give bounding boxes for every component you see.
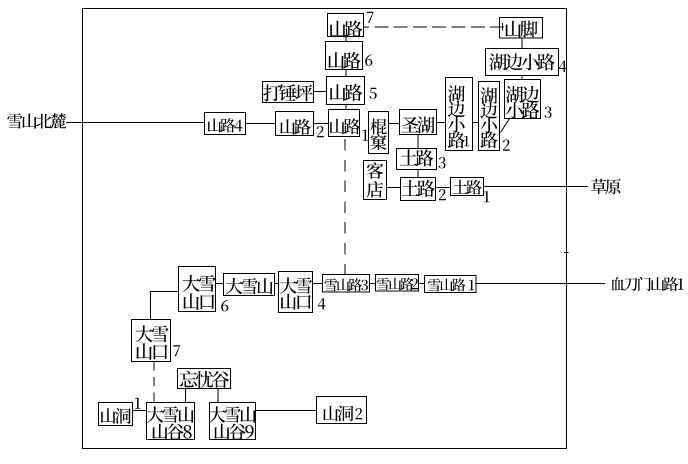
node 棍窠 box bbox=[369, 112, 389, 154]
label 血刀门山路1 bbox=[611, 277, 684, 291]
node 土路1 box bbox=[451, 178, 490, 203]
wire 湖边小路1-湖边小路2 bbox=[473, 122, 479, 124]
wire 忘忧谷-大雪山山谷8 bbox=[185, 389, 187, 403]
wire 棍窠-圣湖 bbox=[389, 123, 400, 125]
wire 山路1-雪山路3 dashed bbox=[344, 139, 346, 274]
wire 土路3-土路2 bbox=[417, 170, 419, 178]
node 土路3 box bbox=[397, 149, 446, 170]
junction tick at 山脚 west bbox=[502, 23, 504, 31]
wire 打锤坪-山路5 bbox=[314, 91, 327, 93]
wire 山路5-山路1 bbox=[345, 105, 347, 110]
node 土路2 box bbox=[401, 178, 446, 201]
node 雪山路2 box bbox=[376, 275, 419, 292]
wire 客店-土路2 bbox=[387, 187, 401, 189]
outer border frame bbox=[83, 9, 567, 449]
node 山路7 box bbox=[328, 12, 374, 38]
node 雪山路1 box bbox=[425, 276, 477, 293]
node 湖边小路4 box bbox=[486, 49, 567, 76]
node 山路1 box bbox=[329, 110, 368, 141]
wire 忘忧谷-大雪山山谷9 bbox=[217, 389, 219, 403]
wire 雪山北麓-山路4 bbox=[66, 122, 204, 124]
node 大雪山口6 box bbox=[179, 267, 229, 312]
wire 山洞1-大雪山山谷8 bbox=[133, 410, 147, 412]
wire 山路4-山路2 bbox=[246, 123, 276, 125]
wire 大雪山口7-大雪山山谷8 dashed bbox=[153, 362, 155, 403]
node 湖边小路2 box bbox=[479, 82, 510, 151]
node 圣湖 box bbox=[400, 110, 437, 135]
wire 雪山路1-血刀门山路1 bbox=[477, 283, 606, 285]
wire 雪山路3-雪山路2 bbox=[370, 283, 376, 285]
wire 山路7-山脚 dashed bbox=[364, 26, 505, 28]
node 雪山路3 box bbox=[323, 275, 370, 293]
node 山路6 box bbox=[326, 42, 373, 70]
node 客店 box bbox=[364, 161, 387, 200]
wire 山路6-山路5 bbox=[345, 70, 347, 77]
node 山路2 box bbox=[276, 112, 324, 138]
wire 山脚-湖边小路4 bbox=[521, 38, 523, 49]
label 雪山北麓 bbox=[7, 113, 66, 129]
wire 圣湖-土路3 bbox=[417, 135, 419, 149]
wire 雪山路2-雪山路1 bbox=[420, 283, 425, 285]
wire 山路2-山路1 bbox=[314, 123, 329, 125]
wire 大雪山口4-雪山路3 bbox=[313, 283, 323, 285]
label 草原 bbox=[591, 179, 621, 195]
node 打锤坪 box bbox=[263, 82, 314, 103]
node 山脚 box bbox=[500, 18, 543, 39]
wire 大雪山口6-大雪山口7 elbow bbox=[150, 292, 179, 320]
node 大雪山口7 box bbox=[132, 320, 180, 362]
node 大雪山 box bbox=[224, 274, 275, 296]
node 湖边小路1 box bbox=[446, 78, 473, 151]
node 湖边小路3 box bbox=[505, 80, 552, 119]
node 山洞2 box bbox=[317, 397, 367, 424]
node 大雪山山谷9 box bbox=[209, 403, 256, 440]
wire 土路1-草原 bbox=[484, 186, 589, 188]
node 山路5 box bbox=[327, 77, 377, 105]
node 山路4 box bbox=[205, 113, 246, 135]
wire 湖边小路2-湖边小路3 diagonal bbox=[501, 119, 510, 133]
wire 土路2-土路1 bbox=[436, 187, 451, 189]
node 大雪山山谷8 box bbox=[147, 403, 195, 440]
node 忘忧谷 box bbox=[178, 369, 231, 389]
node 大雪山口4 box bbox=[279, 272, 326, 313]
tick on right border bbox=[564, 252, 569, 254]
node 山洞1 box bbox=[99, 398, 141, 426]
wire 大雪山口6-大雪山 bbox=[216, 283, 224, 285]
wire 大雪山-大雪山口4 bbox=[275, 283, 279, 285]
wire 圣湖-湖边小路1 bbox=[437, 122, 446, 124]
wire 大雪山山谷9-山洞2 bbox=[256, 410, 317, 412]
wire 山路7-山路6 bbox=[345, 37, 347, 42]
wire 湖边小路3-湖边小路4 bbox=[521, 76, 523, 80]
